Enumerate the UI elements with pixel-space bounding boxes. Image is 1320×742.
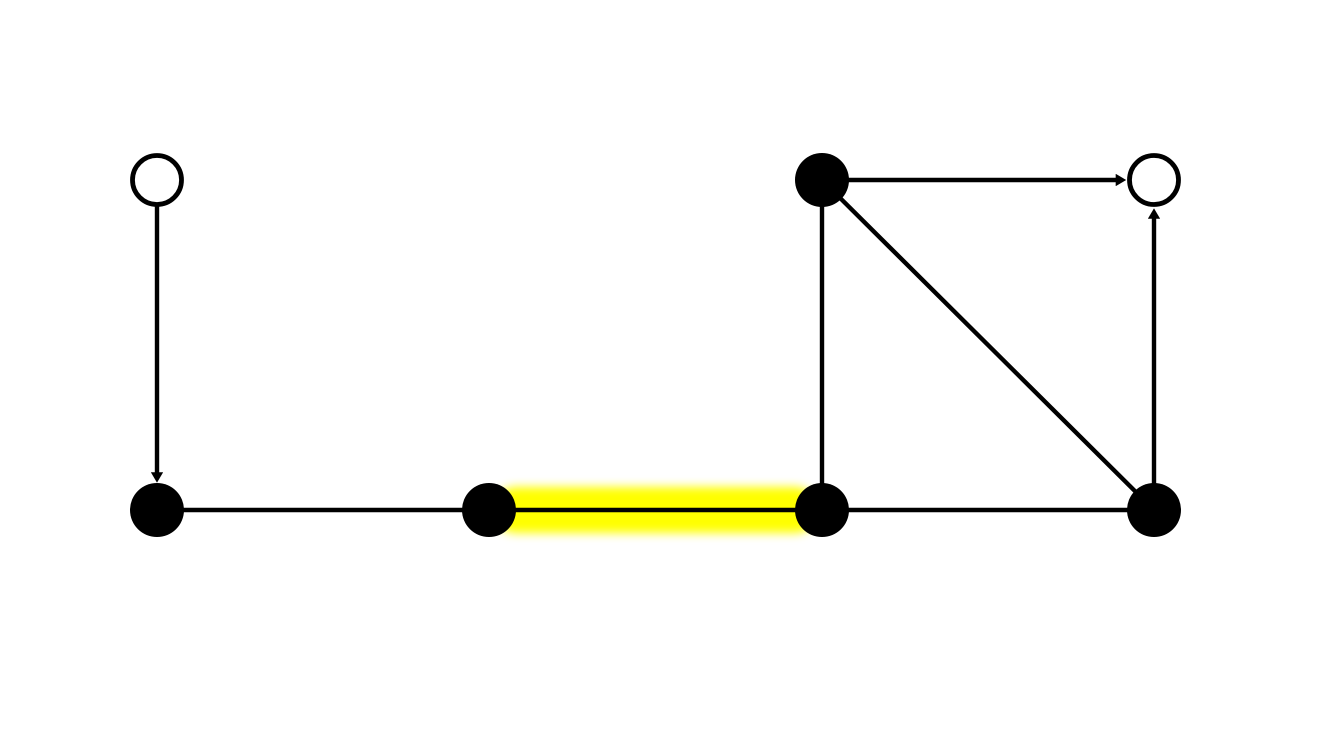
- wire: edge G->F (directed): [1152, 219, 1156, 511]
- wire: edge C-D (highlighted): [489, 508, 822, 512]
- highlight glow on edge C-D: [516, 487, 795, 533]
- wire: edge E->F (directed): [822, 178, 1116, 182]
- wire: edge E-G (diagonal): [822, 180, 1154, 510]
- node G (filled, bottom-right): [1127, 483, 1181, 537]
- node F (open circle, top-right): [1130, 156, 1179, 205]
- node D (filled, bottom-centre-right): [795, 483, 849, 537]
- node B (filled, bottom-left): [130, 483, 184, 537]
- wire: edge A->B (directed): [155, 206, 159, 473]
- wire: edge B-C: [157, 508, 489, 512]
- wire: edge D-G: [822, 508, 1154, 512]
- node C (filled, bottom-middle): [462, 483, 516, 537]
- node E (filled, top-centre-right): [795, 153, 849, 207]
- node A (open circle, top-left): [133, 156, 182, 205]
- wire: edge D-E: [820, 180, 824, 510]
